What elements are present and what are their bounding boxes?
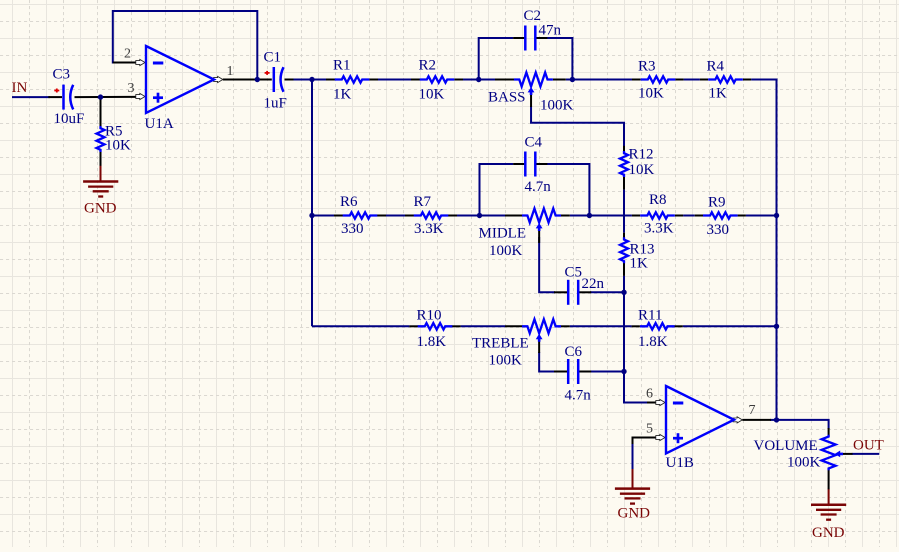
svg-text:C4: C4 (525, 135, 543, 151)
svg-text:10K: 10K (638, 86, 664, 102)
pin stub U1B pin5 (633, 438, 658, 445)
pin stub MIDLE right (561, 215, 570, 217)
wire C4 bridge (480, 164, 514, 216)
svg-text:1K: 1K (333, 87, 352, 103)
node U1B output junction (774, 417, 779, 422)
pin stub R12 top (623, 146, 625, 152)
wire U1A feedback loop pin2 to output (113, 11, 257, 80)
svg-text:100K: 100K (489, 353, 523, 369)
resistor R12 (620, 151, 628, 177)
potentiometer TREBLE (522, 319, 561, 333)
svg-text:5: 5 (646, 422, 653, 437)
wire right bus vertical (776, 79, 778, 420)
U1A pin1 arrow (214, 76, 223, 82)
wire R10 to TREBLE pot (461, 325, 505, 327)
svg-text:1.8K: 1.8K (638, 334, 668, 350)
svg-text:C3: C3 (53, 67, 71, 83)
U1B output pin7 stub (742, 419, 771, 421)
U1A pin2 arrow (136, 59, 145, 65)
wire C2 node to BASS (479, 79, 495, 81)
pin stub R12 bottom (623, 177, 625, 190)
pin stub C6 right (578, 371, 591, 373)
svg-text:MIDLE: MIDLE (479, 226, 527, 242)
pin stub TREBLE wiper (538, 339, 540, 353)
wire C4 left node to MIDLE pot (480, 215, 507, 217)
pin stub C1 right (285, 79, 294, 81)
wire C2 bridge (479, 38, 513, 80)
node C5 junction (621, 290, 626, 295)
svg-text:R11: R11 (638, 308, 662, 324)
ground symbol at volume pot (811, 503, 846, 506)
pin stub C2 left (513, 37, 524, 39)
pin stub volume top (828, 428, 830, 437)
svg-text:TREBLE: TREBLE (472, 336, 529, 352)
pin stub C3 right to node and U1A pin3 (75, 96, 138, 98)
svg-text:R7: R7 (414, 194, 432, 210)
pin stub BASS wiper (530, 92, 532, 107)
node C2 right junction (570, 77, 575, 82)
resistor R7 (414, 212, 449, 218)
wire U1B output to volume pot (770, 419, 777, 421)
wire U1B pin5 from GND (632, 443, 634, 470)
svg-text:C1: C1 (264, 50, 282, 66)
wire TREBLE wiper down to C6 (539, 352, 555, 372)
wire R6 to R7 (377, 215, 413, 217)
svg-text:OUT: OUT (853, 438, 884, 454)
svg-text:GND: GND (812, 525, 845, 541)
node C2 left junction (476, 77, 481, 82)
gnd lead U1B pin5 (632, 469, 634, 489)
wire BASS wiper down and over to R12 (530, 106, 532, 123)
svg-text:R10: R10 (417, 308, 442, 324)
svg-text:4.7n: 4.7n (565, 388, 592, 404)
pin stub R2 left (411, 79, 420, 81)
node C4 right junction (587, 213, 592, 218)
pin stub MIDLE wiper (538, 228, 540, 243)
svg-text:R6: R6 (340, 194, 358, 210)
svg-text:22n: 22n (582, 276, 605, 292)
capacitor C4 (524, 152, 527, 177)
node row2 left bus junction (309, 213, 314, 218)
pin stub TREBLE left (505, 325, 522, 327)
svg-text:U1B: U1B (666, 455, 694, 471)
pin stub volume wiper (841, 453, 853, 455)
gnd lead volume pot (828, 489, 830, 505)
pin stub MIDLE left (505, 215, 522, 217)
svg-text:7: 7 (749, 403, 756, 418)
pin stub R2 right (454, 79, 463, 81)
svg-text:GND: GND (84, 201, 117, 217)
resistor R11 (640, 323, 675, 329)
wire volume wiper to OUT (852, 453, 880, 455)
node row3 right bus junction (774, 324, 779, 329)
wire MIDLE wiper down to C5 (539, 237, 555, 292)
resistor R8 (640, 212, 675, 218)
capacitor C2 (524, 26, 527, 51)
U1A pin3 arrow (136, 93, 145, 99)
svg-text:IN: IN (12, 80, 28, 96)
pin stub R7 (405, 215, 414, 217)
wire R11 to right bus (683, 325, 777, 327)
svg-text:10K: 10K (419, 87, 445, 103)
pin stub R13 top (623, 233, 625, 238)
node feedback/C1 junction (255, 77, 260, 82)
svg-text:1: 1 (227, 64, 234, 79)
pin stub C5 right (578, 291, 591, 293)
pin stub C3 left (48, 96, 62, 98)
wire R12 to R13 crossing row2 (623, 190, 625, 233)
svg-text:6: 6 (646, 387, 653, 402)
wire R2 to C2 node (463, 79, 479, 81)
pin stub R5 top (100, 97, 102, 126)
wire C6 node down to U1B pin6 (624, 372, 648, 403)
svg-text:10K: 10K (105, 138, 131, 154)
svg-text:10K: 10K (629, 162, 655, 178)
resistor R10 (418, 323, 453, 329)
gnd lead R5 (100, 165, 102, 181)
capacitor C1 (273, 67, 276, 92)
svg-text:47n: 47n (539, 23, 562, 39)
wire R4 to right bus corner (751, 79, 776, 81)
resistor R2 (420, 76, 455, 82)
svg-text:100K: 100K (787, 455, 821, 471)
svg-text:C6: C6 (565, 344, 583, 360)
svg-text:100K: 100K (489, 243, 523, 259)
wire C1 right to left bus (293, 79, 312, 81)
wire BASS right to R3 (566, 79, 632, 81)
pin stub TREBLE right (561, 325, 570, 327)
wire C6 right to node (590, 371, 624, 373)
svg-text:GND: GND (618, 506, 651, 522)
pin stub R3 (632, 79, 641, 81)
ground symbol at R5 (83, 180, 118, 183)
svg-text:R3: R3 (638, 59, 656, 75)
wire row3 bus corner to R10 (312, 325, 409, 327)
resistor R4 (708, 76, 743, 82)
svg-text:U1A: U1A (145, 116, 174, 132)
pin stub R5 bottom (100, 152, 102, 166)
svg-text:R12: R12 (629, 147, 654, 163)
pin stub R1 right (369, 79, 378, 81)
svg-text:3.3K: 3.3K (414, 221, 444, 237)
pin stub BASS right (553, 79, 566, 81)
capacitor C6 (567, 359, 570, 384)
svg-text:R4: R4 (707, 59, 725, 75)
U1B pin6 arrow (656, 399, 665, 405)
resistor R6 (343, 212, 378, 218)
wire MIDLE pot to C4 right node (570, 215, 590, 217)
pin stub U1A pin2 (113, 62, 138, 64)
resistor R9 (703, 212, 738, 218)
svg-text:C5: C5 (565, 265, 583, 281)
svg-text:4.7n: 4.7n (525, 179, 552, 195)
pin stub U1B pin6 (647, 402, 658, 404)
wire C4 right node to R8 (589, 215, 632, 217)
wire row1 bus to R1 (311, 79, 335, 81)
wire C5 node down to C6 node (623, 292, 625, 371)
wire left bus vertical (311, 79, 313, 327)
resistor R3 (641, 76, 676, 82)
node C6 junction (621, 369, 626, 374)
potentiometer BASS (514, 73, 553, 87)
svg-text:330: 330 (341, 221, 364, 237)
pin stub R13 bottom (623, 263, 625, 276)
svg-text:3.3K: 3.3K (644, 221, 674, 237)
pin stub C1 left (257, 79, 272, 81)
wire TREBLE pot to R11 (570, 325, 632, 327)
capacitor C5 (567, 280, 570, 305)
pin stub BASS left (495, 79, 514, 81)
pin stub C5 left (554, 291, 569, 293)
svg-text:R8: R8 (649, 192, 667, 208)
pin stub R10 (409, 325, 418, 327)
svg-text:2: 2 (124, 47, 131, 62)
pin stub C6 left (554, 371, 569, 373)
svg-text:VOLUME: VOLUME (754, 438, 818, 454)
svg-text:BASS: BASS (488, 90, 526, 106)
pin stub C4 left (513, 163, 524, 165)
svg-text:3: 3 (128, 81, 135, 96)
U1B pin5 arrow (656, 434, 665, 440)
wire R9 to right bus (746, 215, 777, 217)
op-amp U1A (146, 46, 214, 113)
resistor R1 (335, 76, 370, 82)
pin stub R9 (695, 215, 703, 217)
wire R3 to R4 (684, 79, 700, 81)
svg-text:1K: 1K (630, 256, 649, 272)
svg-text:1.8K: 1.8K (417, 334, 447, 350)
capacitor C3 (62, 85, 65, 110)
pin stub R6 (334, 215, 343, 217)
svg-text:100K: 100K (540, 98, 574, 114)
wire IN to C3 (12, 96, 50, 98)
pin stub R1 left (326, 79, 335, 81)
pin stub C2 right (536, 37, 548, 39)
U1A output pin1 stub (223, 79, 257, 81)
pin stub C4 right (536, 163, 548, 165)
wire R8 to R9 (683, 215, 695, 217)
potentiometer VOLUME (822, 435, 836, 471)
pin stub R8 (632, 215, 640, 217)
svg-text:1K: 1K (709, 86, 728, 102)
pin stub volume bottom (828, 469, 830, 490)
wire row2 bus to R6 (312, 215, 343, 217)
op-amp U1B (666, 386, 734, 454)
wire R1 to R2 (378, 79, 411, 81)
wire R7 to C4 left node (448, 215, 479, 217)
svg-text:1uF: 1uF (264, 96, 287, 112)
svg-text:R2: R2 (419, 58, 437, 74)
resistor R13 (620, 237, 628, 263)
node C4 left junction (477, 213, 482, 218)
node row2 right bus junction (774, 213, 779, 218)
pin stub R4 (700, 79, 708, 81)
pin stub R11 (632, 325, 640, 327)
node C1/left bus junction (309, 77, 314, 82)
wire R13 to C5 node (623, 276, 625, 292)
wire C5 right to node (590, 291, 624, 293)
svg-text:10uF: 10uF (54, 111, 85, 127)
svg-text:R1: R1 (333, 58, 351, 74)
ground symbol at U1B pin5 (615, 487, 650, 490)
resistor R5 (97, 126, 105, 152)
svg-text:330: 330 (707, 222, 730, 238)
U1B pin7 arrow (733, 417, 742, 423)
potentiometer MIDLE (522, 209, 561, 223)
node C3/R5/pin3 junction (98, 94, 103, 99)
svg-text:R9: R9 (708, 195, 726, 211)
